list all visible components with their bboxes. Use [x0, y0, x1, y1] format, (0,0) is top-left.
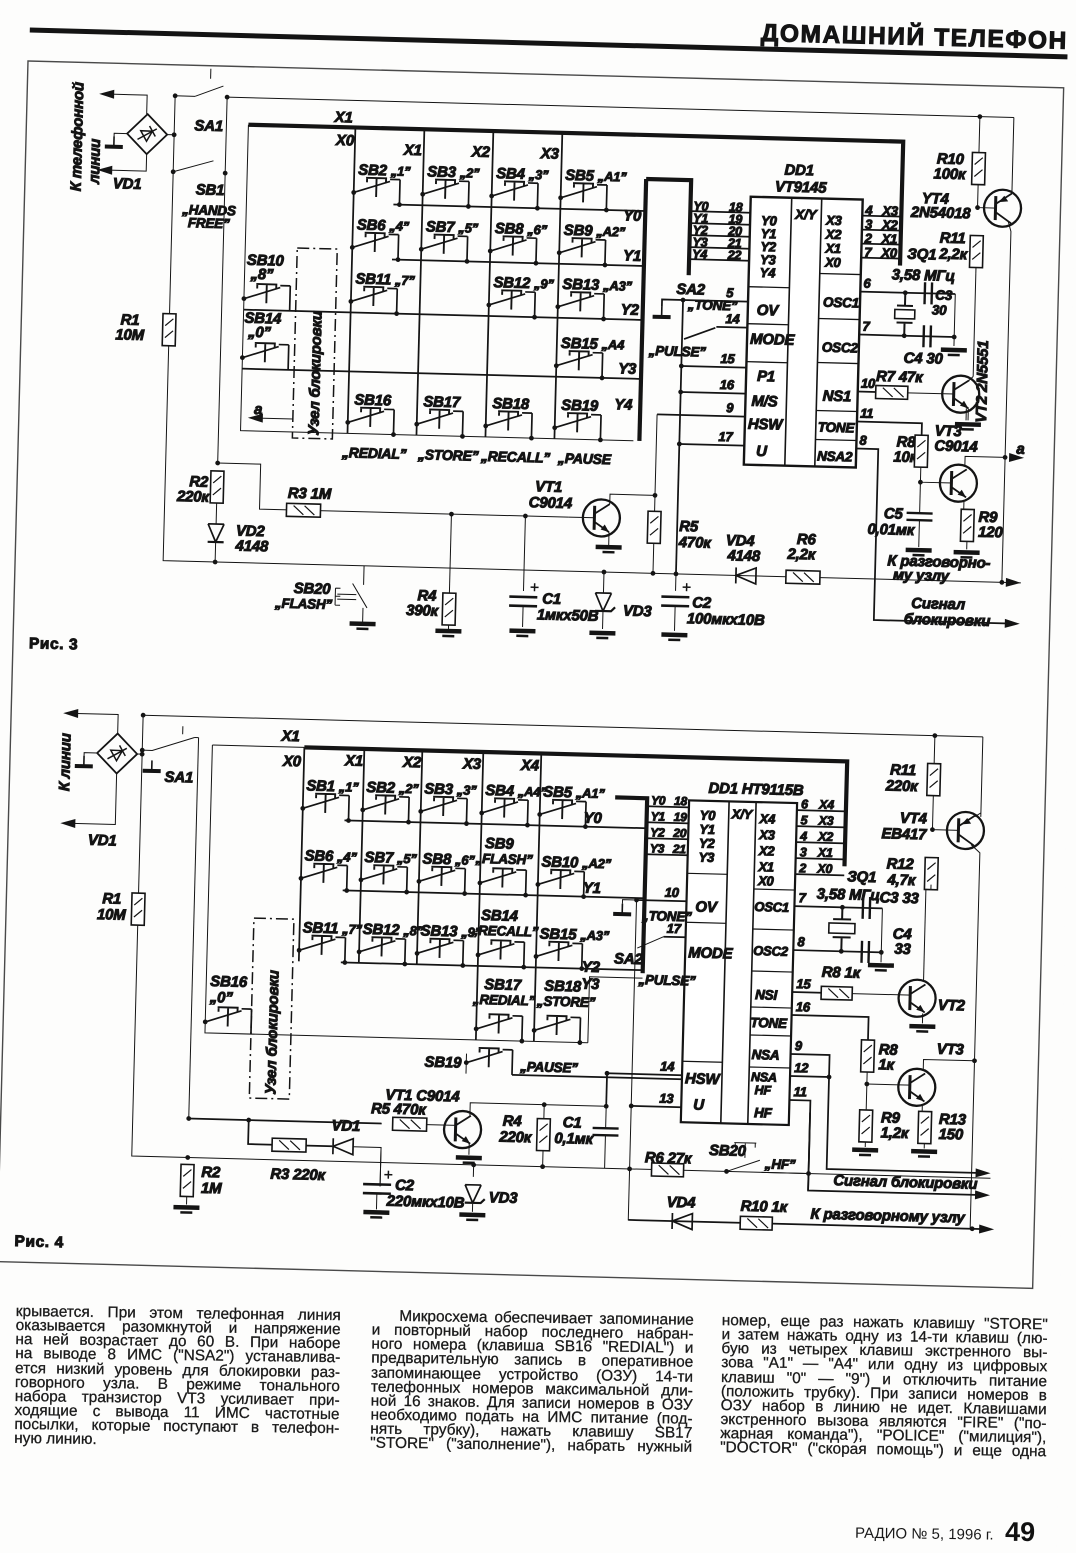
svg-text:Y1: Y1: [651, 809, 666, 823]
DD1 fig.4 internal dividers: [721, 801, 756, 1124]
wire pin17 MODE fig.4: [664, 936, 686, 939]
ground at VD1: [105, 136, 123, 147]
wire pin5 OV: [683, 300, 748, 302]
transistor VT4 EB417: [946, 811, 984, 849]
OSC1/OSC2 wires fig.4: [793, 906, 882, 952]
wire to SA2 ground: [662, 299, 683, 307]
svg-text:1мкх50В: 1мкх50В: [537, 606, 599, 625]
svg-text:R12: R12: [886, 855, 914, 873]
svg-text:С2: С2: [692, 594, 712, 612]
ground at R2: [173, 1207, 199, 1213]
svg-text:VT4: VT4: [900, 810, 928, 828]
switch SB19: [552, 413, 601, 440]
wire pin13 U fig.4: [631, 1106, 681, 1107]
svg-text:M/S: M/S: [751, 393, 778, 411]
svg-text:U: U: [693, 1097, 705, 1114]
switch SB8: [488, 236, 537, 263]
svg-text:X0: X0: [880, 245, 898, 260]
svg-text:TONE: TONE: [750, 1015, 788, 1031]
SA2 lever: [684, 327, 715, 340]
svg-text:X0: X0: [757, 873, 775, 888]
svg-text:SB6 „4”: SB6 „4”: [304, 847, 357, 865]
resistor R6 27к: [651, 1163, 683, 1177]
ground at C2: [661, 635, 687, 641]
svg-text:NSI: NSI: [755, 987, 778, 1003]
svg-text:X0: X0: [824, 255, 842, 270]
svg-text:HSW: HSW: [685, 1070, 722, 1088]
wire pin11 HF to blocking line 2: [787, 1100, 987, 1195]
capacitor C4 30: [923, 325, 931, 347]
svg-text:Y4: Y4: [614, 396, 633, 413]
svg-text:HF: HF: [754, 1083, 771, 1097]
DD1 internal dividers: [785, 198, 822, 467]
svg-text:3: 3: [800, 845, 807, 859]
svg-text:3,58 МГц: 3,58 МГц: [892, 266, 956, 285]
svg-text:DD1 НТ9115В: DD1 НТ9115В: [708, 780, 804, 799]
ground at C2 fig.4: [363, 1212, 389, 1218]
wire X4 pin 6 fig.4: [797, 810, 846, 811]
svg-text:33: 33: [894, 941, 912, 958]
Y group bus step: [644, 179, 691, 275]
wire Y4 pin 22: [689, 259, 749, 261]
wire pin15 P1: [681, 366, 746, 368]
svg-text:21: 21: [672, 842, 687, 856]
svg-text:X2: X2: [402, 754, 422, 772]
wire pin10 NS1: [858, 391, 876, 393]
svg-text:X1: X1: [403, 142, 422, 159]
switch SB4: [489, 181, 538, 208]
svg-text:220к: 220к: [885, 777, 920, 795]
svg-text:220к: 220к: [498, 1129, 533, 1147]
Узел блокировки (fig.4): [249, 918, 294, 1099]
ground at R9 fig.4: [852, 1150, 878, 1156]
svg-text:NS1: NS1: [822, 388, 851, 406]
svg-text:X0: X0: [816, 862, 832, 876]
svg-text:„PAUSE: „PAUSE: [557, 450, 612, 467]
wire Y3 pin 21: [689, 247, 749, 249]
column X1: [416, 129, 424, 435]
svg-text:R4: R4: [503, 1113, 523, 1131]
diode VD3: [602, 570, 607, 575]
svg-text:Y4: Y4: [760, 265, 777, 280]
wire X0 pin 2 fig.4: [795, 874, 844, 875]
switch SB19: [464, 1048, 513, 1075]
svg-text:MODE: MODE: [688, 944, 734, 962]
resistor R9 1,2к: [859, 1110, 873, 1142]
svg-text:SB4 „А4”: SB4 „А4”: [485, 782, 547, 801]
svg-text:X2: X2: [817, 830, 833, 844]
wire Y1 pin 19 fig.4: [647, 822, 689, 823]
switch SB20 HF: [724, 1169, 729, 1174]
resistor R8 10к: [914, 435, 928, 467]
wire pin16 M/S: [681, 392, 746, 394]
ground at SA1: [143, 760, 161, 771]
svg-text:10: 10: [664, 885, 679, 900]
ground at VT2: [955, 424, 981, 430]
line B: R3/VD1: [248, 1120, 333, 1146]
svg-text:SB5 „А1”: SB5 „А1”: [565, 167, 627, 186]
row Y1: [392, 259, 644, 266]
wire X0 pin 7: [861, 258, 900, 259]
bridge rectifier VD1 (fig.4): [97, 733, 138, 774]
ground at VT1 fig.4: [456, 1157, 482, 1163]
svg-text:SB8 „6”: SB8 „6”: [422, 850, 475, 868]
diode VD3 (fig.4): [465, 1185, 485, 1204]
svg-text:С5: С5: [884, 505, 904, 523]
svg-text:а: а: [1016, 441, 1025, 458]
wire Y0 pin 18: [690, 211, 750, 213]
row Y1 fig.4: [343, 890, 645, 898]
DD1 fig.4 separators: [682, 873, 795, 1068]
svg-text:SB16: SB16: [354, 392, 392, 410]
svg-text:SB2 „1”: SB2 „1”: [358, 162, 411, 180]
row Y2 fig.4: [341, 962, 643, 970]
svg-text:С3 33: С3 33: [879, 889, 919, 907]
svg-text:X2: X2: [758, 843, 776, 858]
svg-text:X/Y: X/Y: [794, 207, 819, 223]
ground at C3/C4 fig.4: [868, 965, 894, 971]
switch SA1 (fig.4): [142, 725, 195, 751]
switch SB2: [360, 795, 409, 822]
svg-text:„0”: „0”: [209, 989, 234, 1007]
svg-text:4148: 4148: [726, 547, 761, 565]
svg-text:SB10 „А2”: SB10 „А2”: [541, 854, 612, 873]
svg-text:SB3 „3”: SB3 „3”: [424, 780, 477, 798]
svg-text:„PULSE”: „PULSE”: [648, 343, 707, 360]
svg-text:SB20: SB20: [709, 1142, 747, 1160]
svg-text:VD3: VD3: [623, 603, 653, 621]
svg-text:ЗQ1: ЗQ1: [847, 868, 876, 886]
svg-text:11: 11: [860, 406, 873, 421]
svg-text:Узел блокировки: Узел блокировки: [305, 311, 325, 436]
svg-text:17: 17: [667, 921, 682, 936]
wire pin14 HSW fig.4: [607, 1073, 682, 1075]
svg-text:100к: 100к: [933, 165, 967, 183]
svg-text:R5: R5: [679, 518, 699, 536]
svg-text:VD4: VD4: [667, 1194, 697, 1212]
svg-text:SB15 „А4: SB15 „А4: [561, 335, 626, 354]
svg-text:SB11 „7”: SB11 „7”: [355, 271, 415, 290]
svg-text:Y2: Y2: [582, 959, 601, 976]
svg-text:X3: X3: [462, 755, 482, 773]
svg-text:Рис. 3: Рис. 3: [29, 635, 79, 653]
svg-text:SA1: SA1: [194, 117, 223, 135]
svg-text:Y1: Y1: [623, 247, 641, 264]
switch SB5: [558, 183, 607, 210]
ground at VD1 (fig.4): [75, 755, 93, 766]
svg-text:2: 2: [864, 231, 873, 246]
svg-text:SB1: SB1: [196, 181, 225, 199]
wire Y2 pin 20 fig.4: [646, 838, 688, 839]
switch SB12: [486, 290, 535, 317]
svg-text:Y0: Y0: [651, 793, 666, 807]
svg-text:1к: 1к: [878, 1056, 896, 1073]
svg-text:SB18: SB18: [492, 395, 530, 413]
svg-text:15: 15: [720, 351, 735, 366]
wire pin10 OV fig.4: [637, 900, 687, 901]
svg-text:ЗQ1: ЗQ1: [907, 246, 936, 264]
crystal ZQ1 fig.4: [828, 907, 855, 952]
svg-text:HSW: HSW: [748, 416, 785, 434]
svg-text:X3: X3: [540, 145, 560, 163]
svg-text:1М: 1М: [201, 1180, 223, 1198]
svg-text:0,1мк: 0,1мк: [554, 1130, 595, 1148]
svg-text:NSA: NSA: [751, 1047, 779, 1063]
К разговорному узлу line: [628, 1220, 989, 1229]
row Y0: [393, 204, 645, 211]
svg-text:OSC2: OSC2: [822, 340, 859, 356]
switch SB18: [531, 1015, 580, 1042]
svg-text:VТ9145: VТ9145: [775, 178, 828, 196]
svg-text:4: 4: [799, 829, 807, 843]
svg-text:Y3: Y3: [618, 360, 637, 377]
resistor R11 2,2к: [969, 235, 983, 267]
svg-text:16: 16: [720, 377, 735, 392]
svg-text:19: 19: [674, 810, 688, 824]
svg-text:17: 17: [718, 429, 733, 444]
svg-text:Y4: Y4: [692, 247, 707, 261]
diode VD4 4148: [736, 567, 756, 584]
resistor R1: [162, 314, 176, 346]
svg-text:VD1: VD1: [113, 175, 142, 193]
svg-text:Y3: Y3: [698, 850, 715, 865]
resistor R12 4,7к: [924, 857, 938, 889]
svg-text:SB5 „А1”: SB5 „А1”: [543, 784, 605, 803]
header rule: [30, 30, 1068, 57]
resistor R3 220к: [272, 1138, 306, 1152]
svg-text:С1: С1: [563, 1114, 582, 1131]
capacitor C5 0,01мк: [906, 513, 932, 521]
svg-text:U: U: [756, 443, 768, 460]
ground at C5: [906, 550, 932, 556]
switch SB16: [203, 1007, 252, 1034]
switch SB17: [414, 409, 463, 436]
column X0: [347, 127, 355, 433]
svg-text:220мкх10В: 220мкх10В: [385, 1193, 465, 1212]
svg-text:150: 150: [938, 1126, 964, 1144]
wire pin14 MODE: [716, 326, 747, 329]
resistor R2 220к: [210, 471, 224, 503]
OSC1 / OSC2 wires: [859, 292, 955, 337]
svg-text:„8”: „8”: [249, 266, 274, 284]
svg-text:X1: X1: [280, 728, 299, 745]
svg-text:му узлу: му узлу: [893, 567, 950, 585]
resistor R1: [131, 893, 145, 925]
svg-text:Y2: Y2: [621, 301, 640, 318]
resistor R10 100к: [972, 152, 986, 184]
switch SB1: [300, 793, 349, 820]
column X1 fig.4: [359, 749, 365, 963]
svg-text:X0: X0: [282, 753, 302, 771]
svg-text:15: 15: [796, 976, 811, 991]
capacitor C3 33: [863, 897, 871, 919]
switch SB9: [557, 238, 606, 265]
svg-text:„REDIAL”: „REDIAL”: [341, 444, 407, 462]
svg-text:20: 20: [672, 826, 687, 840]
SA2 pole / pins 15,16,17 common: [676, 300, 683, 574]
svg-text:X0: X0: [335, 132, 355, 150]
svg-text:14: 14: [725, 311, 740, 326]
capacitor C3 30: [925, 282, 933, 304]
svg-text:К телефонной: К телефонной: [68, 82, 88, 192]
Узел блокировки (fig.3): [292, 248, 337, 439]
line A: VD1/R5/VT1 base: [189, 1119, 382, 1124]
svg-text:„0”: „0”: [247, 324, 272, 342]
svg-text:линии: линии: [86, 139, 104, 185]
ground at R4: [435, 631, 461, 637]
resistor R6 2,2к: [786, 570, 820, 584]
switch SB9: [477, 868, 526, 895]
svg-text:14: 14: [660, 1059, 675, 1074]
svg-text:SB7 „5”: SB7 „5”: [364, 849, 417, 867]
svg-text:DD1: DD1: [784, 162, 814, 180]
transistor VT1 C9014: [582, 499, 620, 537]
ground at VD3: [589, 633, 615, 639]
svg-text:4,7к: 4,7к: [886, 871, 917, 889]
DD1 cell separators: [745, 272, 861, 441]
row Y0 fig.4: [344, 820, 646, 828]
switch SB11: [296, 935, 345, 962]
row Y2: [244, 310, 643, 320]
svg-text:„STORE”: „STORE”: [417, 446, 479, 464]
switch SB1 HANDS FREE: [173, 160, 213, 173]
svg-text:X1: X1: [817, 846, 833, 860]
switch SB7: [419, 234, 468, 261]
svg-text:X3: X3: [817, 814, 833, 828]
wire SB19 to pin14: [512, 1075, 682, 1079]
svg-text:2,2к: 2,2к: [938, 246, 969, 264]
wire X3 pin 5 fig.4: [796, 826, 845, 827]
column X2 fig.4: [417, 750, 423, 964]
svg-text:2,2к: 2,2к: [786, 546, 817, 564]
switch SB15: [554, 351, 603, 378]
capacitor C4 33: [861, 941, 869, 963]
resistor R8 1к (верт.): [861, 1040, 875, 1072]
resistor R11 220к: [927, 763, 941, 795]
wire Y1 pin 19: [690, 223, 750, 225]
ground at R9: [953, 552, 979, 558]
svg-text:13: 13: [659, 1091, 674, 1106]
pin14 riser: [605, 1073, 608, 1106]
svg-text:„RECALL”: „RECALL”: [480, 448, 551, 466]
svg-text:С9014: С9014: [529, 494, 573, 512]
resistor R2 1M: [180, 1164, 194, 1196]
transistor VT3 (fig.4): [898, 1068, 936, 1106]
svg-text:VT1 С9014: VT1 С9014: [385, 1087, 460, 1106]
svg-text:R3 1М: R3 1М: [288, 485, 332, 503]
wire X1 pin 3 fig.4: [796, 858, 845, 859]
svg-text:HF: HF: [754, 1105, 773, 1120]
svg-text:VD1: VD1: [88, 832, 117, 850]
svg-text:OSC1: OSC1: [823, 295, 859, 311]
pin11 riser crossing bus: [808, 1113, 810, 1191]
svg-text:SB6 „4”: SB6 „4”: [357, 217, 410, 235]
Y group bus fig.4: [611, 797, 648, 973]
svg-text:R3 220к: R3 220к: [270, 1166, 327, 1184]
switch SB15: [533, 941, 582, 968]
wire pin9 NSA fig.4: [790, 1054, 830, 1077]
svg-text:OSC2: OSC2: [753, 943, 789, 959]
svg-text:SB19: SB19: [424, 1054, 462, 1072]
svg-text:X4: X4: [818, 798, 834, 812]
svg-text:120: 120: [978, 524, 1004, 542]
svg-text:SB12 „9”: SB12 „9”: [493, 274, 554, 293]
svg-text:R10 1к: R10 1к: [740, 1198, 788, 1216]
svg-text:R7 47к: R7 47к: [876, 368, 924, 386]
capacitor C1: [509, 583, 539, 607]
svg-text:220к: 220к: [176, 488, 211, 506]
resistor R4 220к: [537, 1119, 551, 1151]
svg-text:SB12 „8”: SB12 „8”: [362, 921, 423, 940]
svg-text:„REDIAL”: „REDIAL”: [472, 992, 536, 1009]
svg-text:10М: 10М: [115, 326, 145, 344]
switch SB20 FLASH: [352, 566, 368, 622]
svg-text:Y1: Y1: [583, 880, 601, 897]
switch SB14: [240, 343, 289, 370]
wire Y0 pin 18 fig.4: [647, 806, 689, 807]
svg-text:R2: R2: [201, 1164, 221, 1182]
svg-text:10М: 10М: [97, 906, 127, 924]
svg-text:С1: С1: [542, 590, 561, 607]
svg-text:10: 10: [861, 376, 876, 391]
svg-text:470к: 470к: [678, 534, 713, 552]
svg-text:X3: X3: [758, 827, 776, 842]
svg-text:Y3: Y3: [650, 841, 665, 855]
wire pin8 NSA2 to blocking line: [852, 449, 1018, 624]
svg-text:30: 30: [932, 302, 948, 317]
svg-text:4148: 4148: [234, 537, 269, 555]
column X4 fig.4: [534, 753, 541, 1041]
wire X3 pin 4: [862, 216, 901, 217]
resistor R5 470к: [393, 1117, 427, 1131]
svg-text:2N54018: 2N54018: [910, 204, 972, 223]
svg-text:VD3: VD3: [489, 1189, 519, 1207]
wire pin11 TONE: [857, 422, 922, 436]
svg-text:SB9: SB9: [485, 835, 515, 853]
svg-text:„RECALL”: „RECALL”: [471, 923, 539, 940]
resistor R8 1к: [821, 986, 852, 1000]
svg-text:SB13 „А3”: SB13 „А3”: [562, 276, 633, 295]
wire X2 pin 4 fig.4: [796, 842, 845, 843]
svg-text:Y2: Y2: [650, 825, 665, 839]
svg-text:SB17: SB17: [423, 393, 461, 411]
resistor R5 470к: [647, 511, 661, 543]
svg-text:390к: 390к: [406, 602, 440, 620]
svg-text:„STORE”: „STORE”: [536, 993, 596, 1010]
switch SB8: [416, 866, 465, 893]
ground at VT1 emitter: [596, 547, 622, 553]
capacitor C2: [661, 583, 691, 607]
svg-text:MODE: MODE: [750, 331, 796, 349]
switch SB5: [537, 799, 586, 826]
switch SB3: [420, 179, 469, 206]
svg-text:22: 22: [727, 248, 742, 262]
svg-text:0,01мк: 0,01мк: [867, 521, 916, 539]
svg-text:VT1: VT1: [535, 478, 562, 496]
svg-text:TONE: TONE: [818, 420, 856, 436]
svg-text:С9014: С9014: [934, 438, 978, 456]
keypad top bus fig.4: [302, 747, 848, 866]
svg-text:„PAUSE”: „PAUSE”: [519, 1059, 578, 1076]
diode VD2: [208, 524, 224, 542]
diode VD4 (fig.4): [672, 1213, 692, 1230]
svg-text:R11: R11: [890, 762, 916, 780]
svg-text:SA1: SA1: [164, 769, 193, 787]
svg-text:ЕВ417: ЕВ417: [881, 825, 927, 843]
ground at C1: [509, 631, 535, 637]
wire pin17 U: [679, 444, 744, 446]
bridge rectifier VD1: [127, 114, 168, 155]
